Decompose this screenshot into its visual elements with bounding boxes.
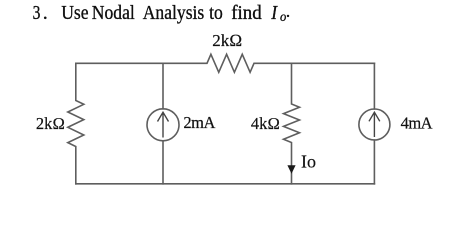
svg-text:3: 3 xyxy=(33,1,41,23)
svg-text:2kΩ: 2kΩ xyxy=(36,114,65,133)
svg-text:Io: Io xyxy=(301,152,316,172)
svg-text:.: . xyxy=(43,2,48,24)
svg-text:2kΩ: 2kΩ xyxy=(212,31,242,50)
svg-text:4kΩ: 4kΩ xyxy=(251,114,280,133)
svg-text:2mA: 2mA xyxy=(183,113,215,132)
svg-text:to: to xyxy=(209,2,223,24)
svg-text:Use: Use xyxy=(61,2,88,24)
svg-text:4mA: 4mA xyxy=(401,113,433,132)
svg-text:I: I xyxy=(270,2,277,24)
svg-text:Nodal: Nodal xyxy=(92,2,135,24)
svg-text:find: find xyxy=(231,3,262,25)
svg-text:.: . xyxy=(286,1,291,21)
svg-text:Analysis: Analysis xyxy=(143,2,205,24)
